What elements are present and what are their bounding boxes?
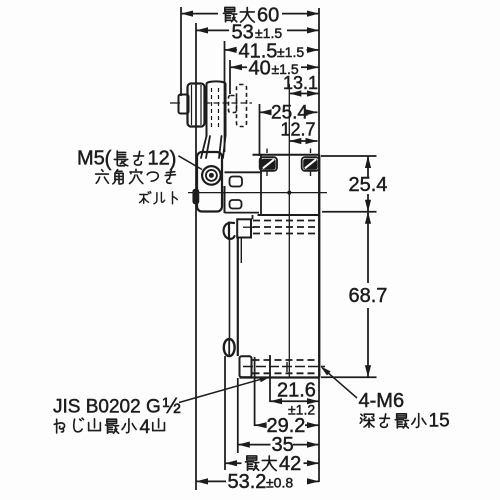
svg-text:±1.5: ±1.5 [255,25,282,41]
head top line [253,154,320,156]
pivot middle circle [206,170,217,181]
thin rod along body left [229,240,231,340]
dim max42 text [245,456,258,470]
extension line 25.4 left (head left face extended up) [259,104,261,156]
extension line left of roller (max60) [180,7,182,96]
extension body bottom right [321,376,377,378]
svg-text:(: ( [105,148,112,171]
svg-text:JIS B0202 G: JIS B0202 G [53,397,161,418]
dim 13.1 line [289,93,319,95]
body right face [318,215,320,378]
M5 bolt dark blob on hub left [193,190,198,204]
head screw right [302,157,319,171]
lever hidden hole lines [211,88,213,130]
roller [188,84,205,127]
head screw left [260,157,277,171]
body bottom edge [240,376,320,378]
dim 12.7 line [289,140,317,142]
dashed band bottom row1 [253,359,320,361]
extension 21.6 left [269,355,271,402]
head right face [318,155,320,215]
head bottom line [258,214,320,216]
svg-text:4: 4 [140,417,151,438]
svg-text:4-M6: 4-M6 [359,390,405,412]
svg-text:): ) [170,148,177,171]
leader line M5 to pivot bolt [178,156,202,170]
pivot outer circle [202,166,221,185]
horizontal center line through head [188,192,327,194]
leader line JIS to conduit [179,378,266,403]
dim 29.2 line [255,424,266,426]
mounting hole center tick [269,356,271,378]
dim 68.7 line [367,212,369,283]
body left inner line [240,238,242,264]
extension 29.2 left [254,357,256,426]
svg-text:12: 12 [148,148,170,170]
svg-text:½: ½ [163,393,181,418]
center line vertical of head/body [288,84,290,377]
svg-text:40: 40 [249,58,271,80]
svg-text:±0.8: ±0.8 [266,474,293,490]
right common extension line [318,8,320,482]
dashed band bottom center line [243,366,325,368]
tab upper on head left face [230,177,243,187]
svg-text:60: 60 [257,5,279,27]
dashed band top row1 [253,220,318,222]
svg-text:25.4: 25.4 [349,174,388,196]
svg-text:15: 15 [429,411,450,432]
dim 41.5 line [225,49,238,51]
body top edge [252,215,254,219]
svg-text:M5: M5 [77,148,105,170]
extension line 53/53.2 left [195,23,197,490]
leader line 4-M6 to mounting hole [323,368,358,398]
extension 35 left / body left face extended [237,378,239,453]
dim 53 line [196,29,229,31]
roller inner edge lines [191,85,193,125]
dim 25.4 horizontal line [260,111,269,113]
clip ring lower [224,339,235,356]
svg-text:21.6: 21.6 [277,380,316,402]
extension line 41.5 left / lever right edge extended [224,41,226,152]
svg-text:13.1: 13.1 [283,73,318,93]
body left face [237,238,239,357]
svg-text:42: 42 [279,453,301,475]
pivot center dot [209,173,214,178]
head left internal vertical [260,155,262,215]
extension line 40 left [229,60,231,94]
dashed band bottom row2 [253,372,320,374]
nut left of roller [179,95,189,114]
extension head top right [321,155,377,157]
roller center line [170,102,180,104]
bearing housing between hub and head [224,186,226,213]
clip hook upper [224,223,235,240]
dim max60 text [223,7,236,21]
svg-text:53.2: 53.2 [228,471,267,493]
svg-text:±1.5: ±1.5 [277,44,304,60]
extension max42 left / clip edge extended [224,356,226,470]
dim max60 line [181,13,218,15]
dim 25.4 vertical line [367,156,369,177]
dashed band top row2 [253,226,318,228]
phantom nut (other lever position, dashed) [229,96,237,113]
dim 53.2 line [196,480,226,482]
dim 35 line [238,444,271,446]
plunger block top left [237,219,251,237]
conduit corner box bottom-left [240,356,252,377]
lever fork tapering to hub [201,136,226,158]
svg-text:68.7: 68.7 [349,285,388,307]
tab lower on head left face [230,200,242,209]
dashed band top row3 [253,233,318,235]
lever shaft [207,81,226,136]
lever hub [197,152,222,212]
dim 21.6 line [270,400,319,402]
dim 40 line [230,66,247,68]
phantom roller dashed [237,85,247,127]
svg-text:12.7: 12.7 [280,119,315,139]
dim max42 line [225,462,242,464]
extension head bottom right [322,211,377,213]
